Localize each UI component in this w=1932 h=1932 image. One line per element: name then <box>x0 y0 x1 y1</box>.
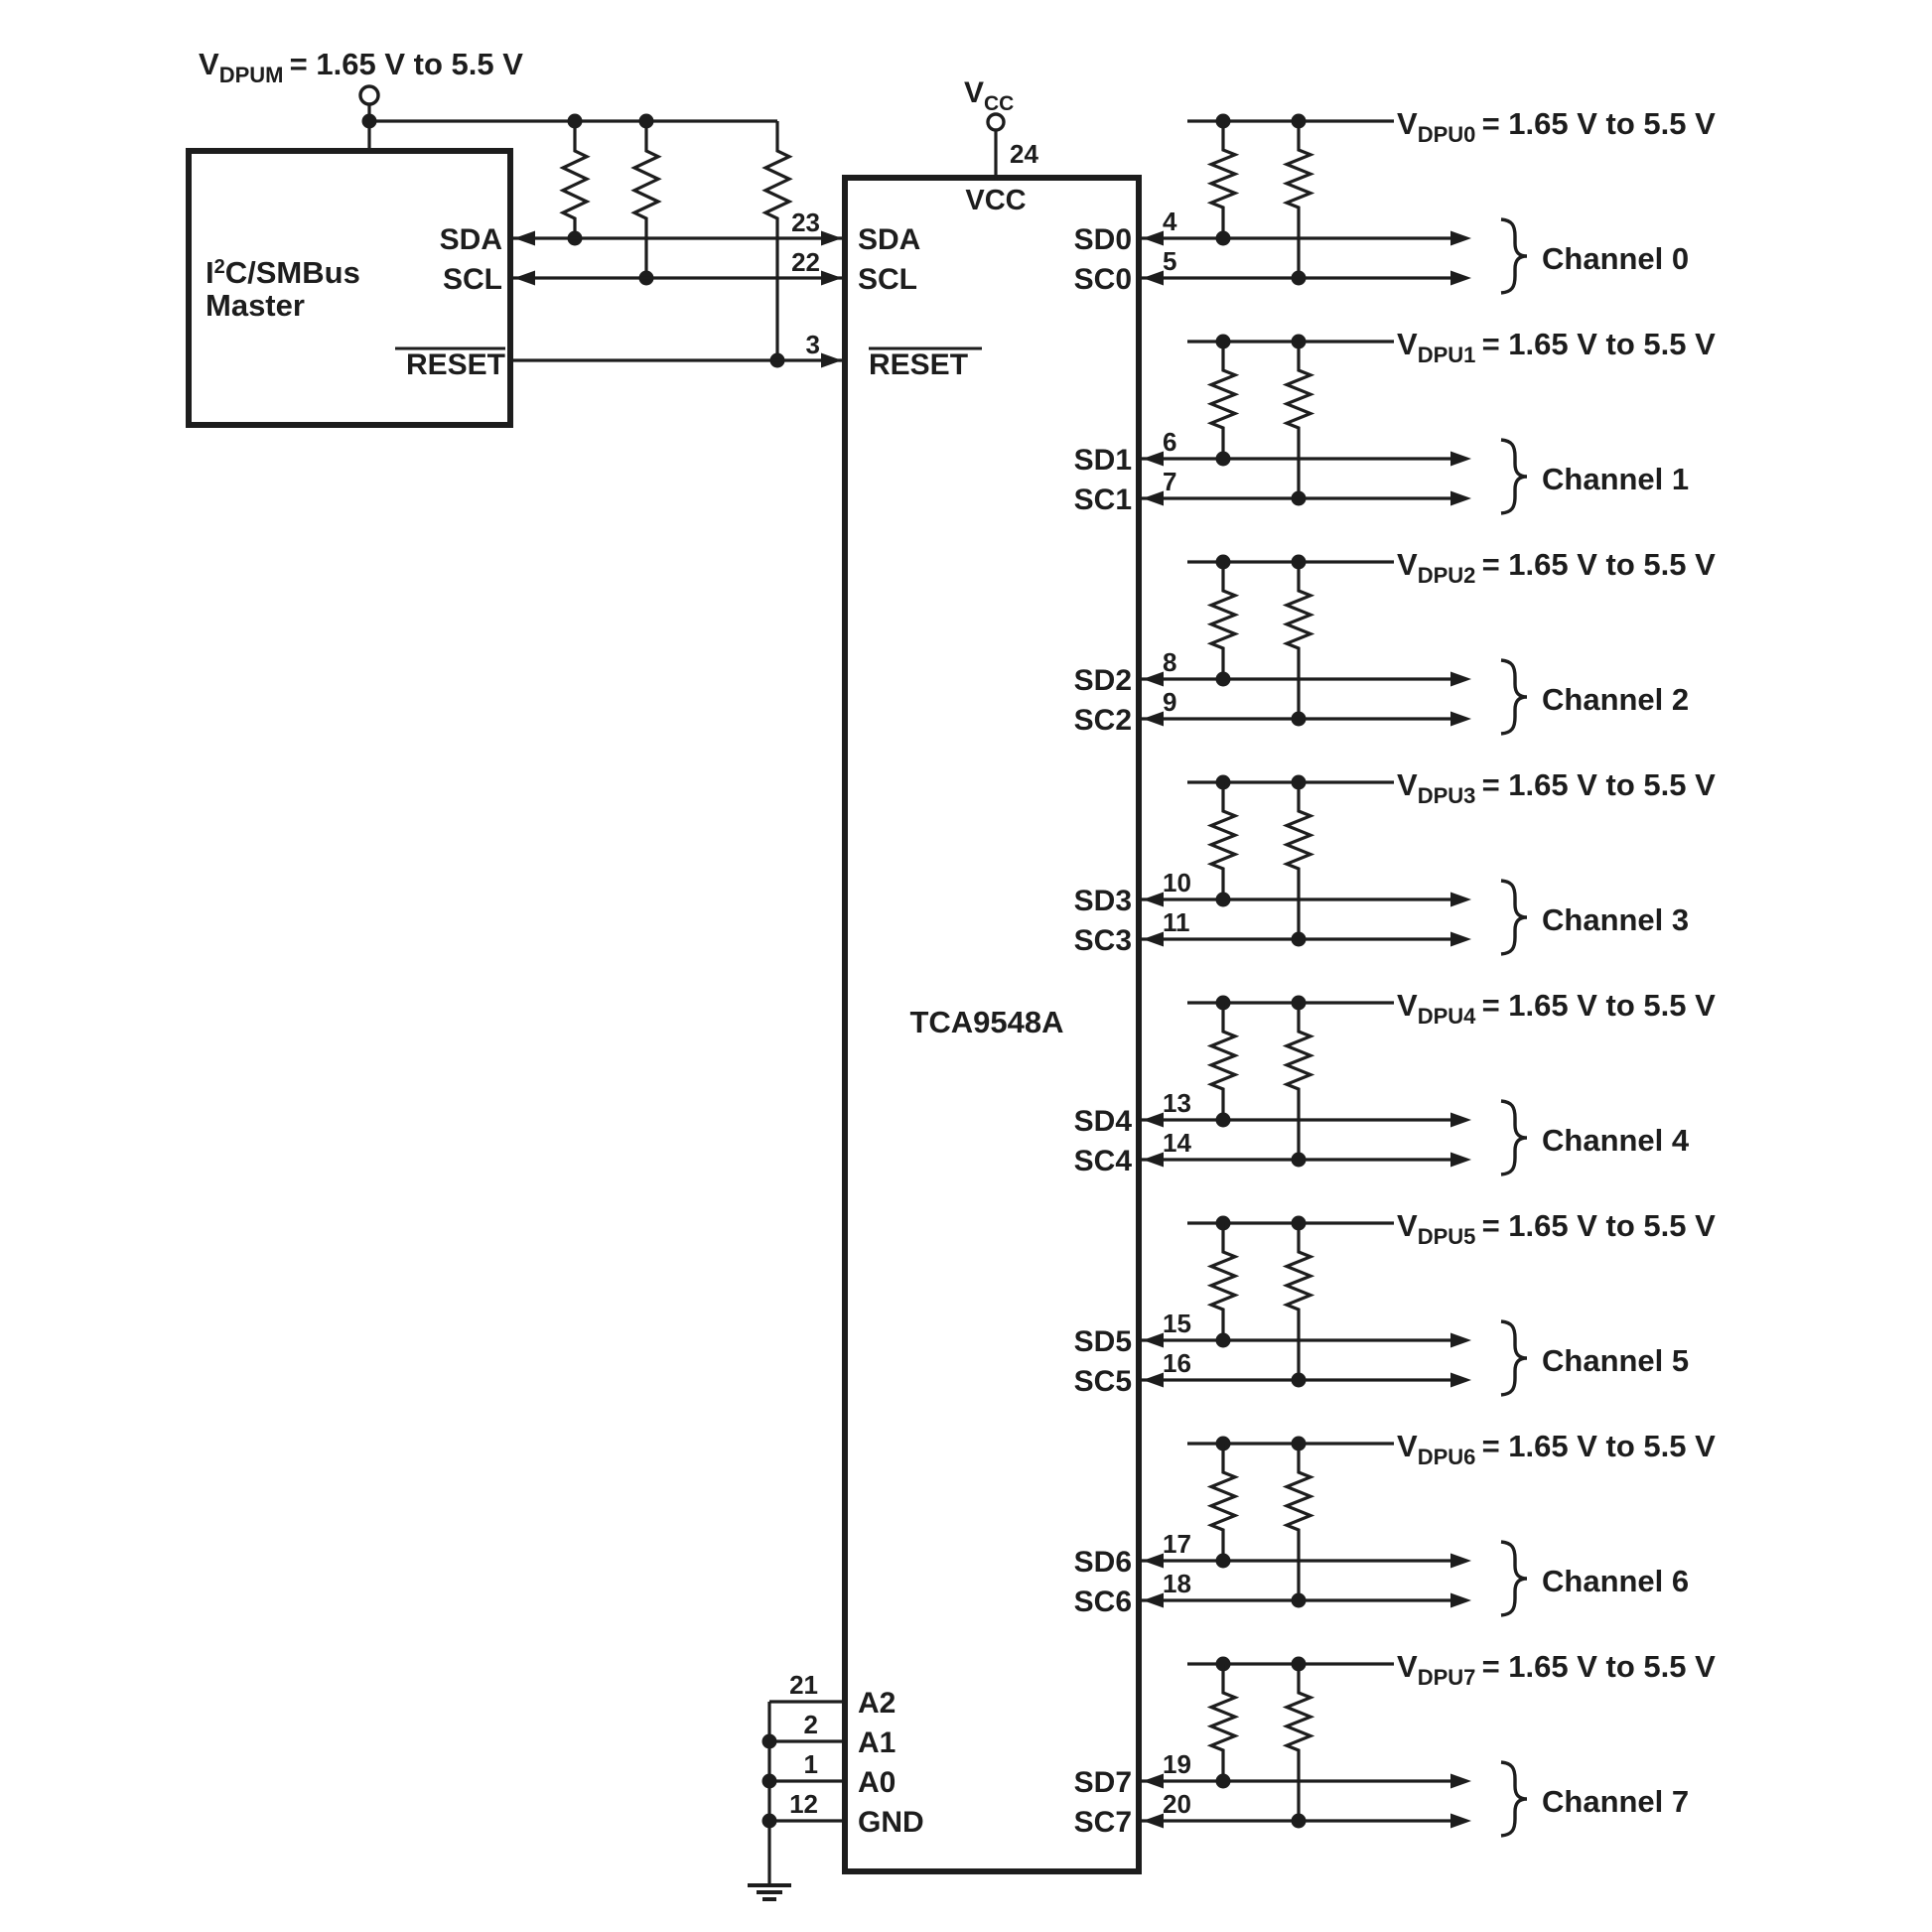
svg-text:5: 5 <box>1163 246 1176 276</box>
wire SD2 channel line <box>1142 677 1451 680</box>
overline on master RESET <box>395 347 505 350</box>
junction dot rail / SC7 resistor <box>1292 1657 1307 1672</box>
arrowhead SD2 at TCA pin 8 <box>1143 672 1164 687</box>
arrowhead SC6 at TCA pin 18 <box>1143 1593 1164 1608</box>
junction dot rail / SC5 resistor <box>1292 1216 1307 1231</box>
junction dot SC7 / resistor <box>1292 1814 1307 1829</box>
arrowhead SC6 to channel device <box>1450 1593 1471 1608</box>
junction dot rail / SC6 resistor <box>1292 1437 1307 1451</box>
arrowhead SC1 to channel device <box>1450 491 1471 506</box>
arrowhead SC0 at TCA pin 5 <box>1143 271 1164 286</box>
svg-text:14: 14 <box>1163 1128 1191 1158</box>
svg-text:VCC: VCC <box>964 76 1014 115</box>
resistor SD6 pull-up <box>1211 1444 1235 1561</box>
wire V_DPU7 pull-up rail <box>1187 1662 1394 1665</box>
arrowhead SD7 to channel device <box>1450 1774 1471 1789</box>
junction dot SC0 / resistor <box>1292 271 1307 286</box>
arrowhead SDA at master <box>514 231 535 246</box>
resistor SC5 pull-up <box>1287 1223 1311 1380</box>
wire SC6 channel line <box>1142 1598 1451 1601</box>
svg-text:Master: Master <box>206 288 305 323</box>
arrowhead SC2 to channel device <box>1450 712 1471 727</box>
wire SD5 channel line <box>1142 1338 1451 1341</box>
junction dot rail / SC3 resistor <box>1292 775 1307 790</box>
junction dot SD0 / resistor <box>1216 231 1231 246</box>
arrowhead SC4 at TCA pin 14 <box>1143 1153 1164 1168</box>
resistor SC7 pull-up <box>1287 1664 1311 1821</box>
wire RESET net (master to TCA pin 3) <box>513 358 842 361</box>
wire SC3 channel line <box>1142 937 1451 940</box>
wire V_DPUM terminal drop <box>367 104 370 151</box>
arrowhead SDA into TCA pin 23 <box>821 231 842 246</box>
svg-text:3: 3 <box>806 330 820 359</box>
junction dot SD3 / resistor <box>1216 893 1231 907</box>
svg-text:VDPU0 = 1.65 V to 5.5 V: VDPU0 = 1.65 V to 5.5 V <box>1397 106 1716 147</box>
brace channel 4 <box>1501 1101 1527 1174</box>
junction dot rail / SC2 resistor <box>1292 555 1307 570</box>
arrowhead SD6 at TCA pin 17 <box>1143 1554 1164 1569</box>
svg-text:SD1: SD1 <box>1074 444 1132 477</box>
svg-text:VDPU6 = 1.65 V to 5.5 V: VDPU6 = 1.65 V to 5.5 V <box>1397 1429 1716 1469</box>
power terminal VCC <box>988 114 1004 130</box>
brace channel 6 <box>1501 1542 1527 1615</box>
junction dot V_DPUM drop / rail <box>362 114 377 129</box>
arrowhead SD3 to channel device <box>1450 893 1471 907</box>
arrowhead SD5 at TCA pin 15 <box>1143 1333 1164 1348</box>
wire SD6 channel line <box>1142 1559 1451 1562</box>
svg-text:SD3: SD3 <box>1074 885 1132 917</box>
block I2C/SMBus Master <box>189 151 510 425</box>
svg-text:8: 8 <box>1163 647 1176 677</box>
junction dot rail / SDA resistor <box>568 114 583 129</box>
svg-text:VDPU2 = 1.65 V to 5.5 V: VDPU2 = 1.65 V to 5.5 V <box>1397 547 1716 588</box>
svg-text:Channel 7: Channel 7 <box>1542 1784 1689 1819</box>
junction dot rail / SD3 resistor <box>1216 775 1231 790</box>
junction dot SD5 / resistor <box>1216 1333 1231 1348</box>
wire SC4 channel line <box>1142 1158 1451 1161</box>
svg-text:VDPU1 = 1.65 V to 5.5 V: VDPU1 = 1.65 V to 5.5 V <box>1397 327 1716 367</box>
junction dot rail / SD5 resistor <box>1216 1216 1231 1231</box>
junction dot rail / SC1 resistor <box>1292 335 1307 349</box>
svg-text:SD6: SD6 <box>1074 1546 1132 1579</box>
svg-text:TCA9548A: TCA9548A <box>909 1005 1063 1039</box>
wire SCL net (master to TCA pin 22) <box>513 276 842 279</box>
arrowhead SD0 at TCA pin 4 <box>1143 231 1164 246</box>
svg-text:I2C/SMBus: I2C/SMBus <box>206 255 360 290</box>
svg-text:SC2: SC2 <box>1074 704 1132 737</box>
wire SD0 channel line <box>1142 236 1451 239</box>
resistor SD2 pull-up <box>1211 562 1235 679</box>
svg-text:24: 24 <box>1010 139 1038 169</box>
svg-text:VDPUM = 1.65 V to 5.5 V: VDPUM = 1.65 V to 5.5 V <box>199 47 523 87</box>
junction dot rail / SD1 resistor <box>1216 335 1231 349</box>
svg-text:1: 1 <box>804 1749 818 1779</box>
junction dot SC6 / resistor <box>1292 1593 1307 1608</box>
wire VCC terminal to pin 24 <box>994 130 997 181</box>
svg-text:A2: A2 <box>858 1687 896 1720</box>
wire SDA net (master to TCA pin 23) <box>513 236 842 239</box>
arrowhead SC3 at TCA pin 11 <box>1143 932 1164 947</box>
svg-text:RESET: RESET <box>869 348 968 381</box>
resistor SD4 pull-up <box>1211 1003 1235 1120</box>
junction dot SCL resistor / SCL wire <box>639 271 654 286</box>
svg-text:SD7: SD7 <box>1074 1766 1132 1799</box>
junction dot bus / GND <box>762 1814 777 1829</box>
brace channel 5 <box>1501 1321 1527 1395</box>
svg-text:SD5: SD5 <box>1074 1325 1132 1358</box>
junction dot bus / A0 <box>762 1774 777 1789</box>
brace channel 3 <box>1501 881 1527 954</box>
wire SC5 channel line <box>1142 1378 1451 1381</box>
wire V_DPU2 pull-up rail <box>1187 560 1394 563</box>
svg-text:6: 6 <box>1163 427 1176 457</box>
svg-text:SC1: SC1 <box>1074 483 1132 516</box>
svg-text:22: 22 <box>791 247 820 277</box>
svg-text:Channel 4: Channel 4 <box>1542 1123 1690 1158</box>
brace channel 1 <box>1501 440 1527 513</box>
junction dot rail / SCL resistor <box>639 114 654 129</box>
junction dot rail / SD7 resistor <box>1216 1657 1231 1672</box>
resistor SD0 pull-up <box>1211 121 1235 238</box>
svg-text:SC0: SC0 <box>1074 263 1132 296</box>
junction dot SD2 / resistor <box>1216 672 1231 687</box>
svg-text:SC5: SC5 <box>1074 1365 1132 1398</box>
svg-text:GND: GND <box>858 1806 924 1839</box>
wire SD3 channel line <box>1142 897 1451 900</box>
svg-text:19: 19 <box>1163 1749 1191 1779</box>
svg-text:VDPU5 = 1.65 V to 5.5 V: VDPU5 = 1.65 V to 5.5 V <box>1397 1208 1716 1249</box>
wire V_DPU0 pull-up rail <box>1187 119 1394 122</box>
junction dot rail / SD2 resistor <box>1216 555 1231 570</box>
junction dot SD1 / resistor <box>1216 452 1231 467</box>
wire SC7 channel line <box>1142 1819 1451 1822</box>
brace channel 7 <box>1501 1762 1527 1836</box>
svg-text:VCC: VCC <box>965 185 1026 216</box>
arrowhead SC1 at TCA pin 7 <box>1143 491 1164 506</box>
svg-text:Channel 1: Channel 1 <box>1542 462 1689 496</box>
arrowhead SC5 at TCA pin 16 <box>1143 1373 1164 1388</box>
wire SD1 channel line <box>1142 457 1451 460</box>
svg-text:A1: A1 <box>858 1726 896 1759</box>
svg-text:VDPU3 = 1.65 V to 5.5 V: VDPU3 = 1.65 V to 5.5 V <box>1397 767 1716 808</box>
svg-text:Channel 0: Channel 0 <box>1542 241 1689 276</box>
junction dot SD7 / resistor <box>1216 1774 1231 1789</box>
svg-text:11: 11 <box>1163 907 1190 937</box>
junction dot rail / SD0 resistor <box>1216 114 1231 129</box>
svg-text:15: 15 <box>1163 1309 1191 1338</box>
brace channel 2 <box>1501 660 1527 734</box>
resistor SC3 pull-up <box>1287 782 1311 939</box>
arrowhead SD5 to channel device <box>1450 1333 1471 1348</box>
junction dot SC5 / resistor <box>1292 1373 1307 1388</box>
arrowhead SD2 to channel device <box>1450 672 1471 687</box>
junction dot SC4 / resistor <box>1292 1153 1307 1168</box>
wire SD7 channel line <box>1142 1779 1451 1782</box>
svg-text:7: 7 <box>1163 467 1176 496</box>
wire V_DPU5 pull-up rail <box>1187 1221 1394 1224</box>
svg-text:16: 16 <box>1163 1348 1191 1378</box>
resistor SC2 pull-up <box>1287 562 1311 719</box>
junction dot SD4 / resistor <box>1216 1113 1231 1128</box>
junction dot RESET resistor / RESET wire <box>770 353 785 368</box>
svg-text:SDA: SDA <box>858 223 920 256</box>
wire SD4 channel line <box>1142 1118 1451 1121</box>
junction dot SC3 / resistor <box>1292 932 1307 947</box>
svg-text:17: 17 <box>1163 1529 1191 1559</box>
arrowhead SC5 to channel device <box>1450 1373 1471 1388</box>
svg-text:SC4: SC4 <box>1074 1145 1133 1177</box>
arrowhead SD3 at TCA pin 10 <box>1143 893 1164 907</box>
wire address strap bus to ground <box>767 1702 770 1885</box>
arrowhead SC2 at TCA pin 9 <box>1143 712 1164 727</box>
pin wire A0 (pin 1) <box>769 1779 845 1782</box>
svg-text:4: 4 <box>1163 207 1177 236</box>
arrowhead SD4 at TCA pin 13 <box>1143 1113 1164 1128</box>
arrowhead SD7 at TCA pin 19 <box>1143 1774 1164 1789</box>
junction dot bus / A1 <box>762 1734 777 1749</box>
arrowhead RESET into TCA pin 3 <box>821 353 842 368</box>
svg-text:23: 23 <box>791 207 820 237</box>
wire V_DPU1 pull-up rail <box>1187 340 1394 343</box>
svg-text:SDA: SDA <box>440 223 502 256</box>
wire SC0 channel line <box>1142 276 1451 279</box>
arrowhead SCL into TCA pin 22 <box>821 271 842 286</box>
wire V_DPU4 pull-up rail <box>1187 1001 1394 1004</box>
resistor SC0 pull-up <box>1287 121 1311 278</box>
wire V_DPUM pull-up rail <box>369 119 777 122</box>
arrowhead SD4 to channel device <box>1450 1113 1471 1128</box>
svg-text:SC7: SC7 <box>1074 1806 1132 1839</box>
svg-text:9: 9 <box>1163 687 1176 717</box>
svg-text:VDPU4 = 1.65 V to 5.5 V: VDPU4 = 1.65 V to 5.5 V <box>1397 988 1716 1029</box>
resistor SCL pull-up (to V_DPUM) <box>634 121 658 278</box>
svg-text:SCL: SCL <box>443 263 502 296</box>
arrowhead SC7 to channel device <box>1450 1814 1471 1829</box>
arrowhead SD0 to channel device <box>1450 231 1471 246</box>
svg-text:Channel 2: Channel 2 <box>1542 682 1689 717</box>
wire SC2 channel line <box>1142 717 1451 720</box>
svg-text:10: 10 <box>1163 868 1191 897</box>
resistor SC1 pull-up <box>1287 342 1311 498</box>
arrowhead SD1 at TCA pin 6 <box>1143 452 1164 467</box>
op block TCA9548A (I2C switch) <box>845 178 1139 1871</box>
arrowhead SC0 to channel device <box>1450 271 1471 286</box>
svg-text:SD2: SD2 <box>1074 664 1132 697</box>
svg-text:VDPU7 = 1.65 V to 5.5 V: VDPU7 = 1.65 V to 5.5 V <box>1397 1649 1716 1690</box>
pin wire A2 (pin 21) <box>769 1700 845 1703</box>
svg-text:20: 20 <box>1163 1789 1191 1819</box>
svg-text:SC6: SC6 <box>1074 1586 1132 1618</box>
junction dot SC1 / resistor <box>1292 491 1307 506</box>
svg-text:12: 12 <box>789 1789 818 1819</box>
arrowhead SC4 to channel device <box>1450 1153 1471 1168</box>
resistor SC6 pull-up <box>1287 1444 1311 1600</box>
wire V_DPU3 pull-up rail <box>1187 780 1394 783</box>
svg-text:Channel 6: Channel 6 <box>1542 1564 1689 1598</box>
arrowhead SC3 to channel device <box>1450 932 1471 947</box>
svg-text:SC3: SC3 <box>1074 924 1132 957</box>
ground symbol <box>748 1883 791 1887</box>
wire V_DPU6 pull-up rail <box>1187 1442 1394 1445</box>
junction dot rail / SD4 resistor <box>1216 996 1231 1011</box>
svg-text:13: 13 <box>1163 1088 1191 1118</box>
brace channel 0 <box>1501 219 1527 293</box>
resistor RESET pull-up (to V_DPUM) <box>765 121 789 360</box>
arrowhead SD6 to channel device <box>1450 1554 1471 1569</box>
svg-text:SD4: SD4 <box>1074 1105 1133 1138</box>
junction dot rail / SC4 resistor <box>1292 996 1307 1011</box>
overline on TCA RESET <box>869 347 982 350</box>
junction dot rail / SC0 resistor <box>1292 114 1307 129</box>
resistor SC4 pull-up <box>1287 1003 1311 1160</box>
junction dot rail / SD6 resistor <box>1216 1437 1231 1451</box>
power terminal V_DPUM <box>360 86 378 104</box>
junction dot SC2 / resistor <box>1292 712 1307 727</box>
svg-text:SD0: SD0 <box>1074 223 1132 256</box>
svg-text:Channel 5: Channel 5 <box>1542 1343 1689 1378</box>
resistor SD5 pull-up <box>1211 1223 1235 1340</box>
arrowhead SD1 to channel device <box>1450 452 1471 467</box>
svg-text:Channel 3: Channel 3 <box>1542 902 1689 937</box>
svg-text:SCL: SCL <box>858 263 917 296</box>
arrowhead SCL at master <box>514 271 535 286</box>
pin wire GND (pin 12) <box>769 1819 845 1822</box>
svg-text:2: 2 <box>804 1710 818 1739</box>
svg-text:RESET: RESET <box>406 348 505 381</box>
pin wire A1 (pin 2) <box>769 1739 845 1742</box>
resistor SD7 pull-up <box>1211 1664 1235 1781</box>
svg-text:21: 21 <box>789 1670 818 1700</box>
wire SC1 channel line <box>1142 496 1451 499</box>
arrowhead SC7 at TCA pin 20 <box>1143 1814 1164 1829</box>
junction dot SD6 / resistor <box>1216 1554 1231 1569</box>
resistor SDA pull-up (to V_DPUM) <box>563 121 587 238</box>
junction dot SDA resistor / SDA wire <box>568 231 583 246</box>
resistor SD1 pull-up <box>1211 342 1235 459</box>
svg-text:18: 18 <box>1163 1569 1191 1598</box>
resistor SD3 pull-up <box>1211 782 1235 899</box>
svg-text:A0: A0 <box>858 1766 896 1799</box>
